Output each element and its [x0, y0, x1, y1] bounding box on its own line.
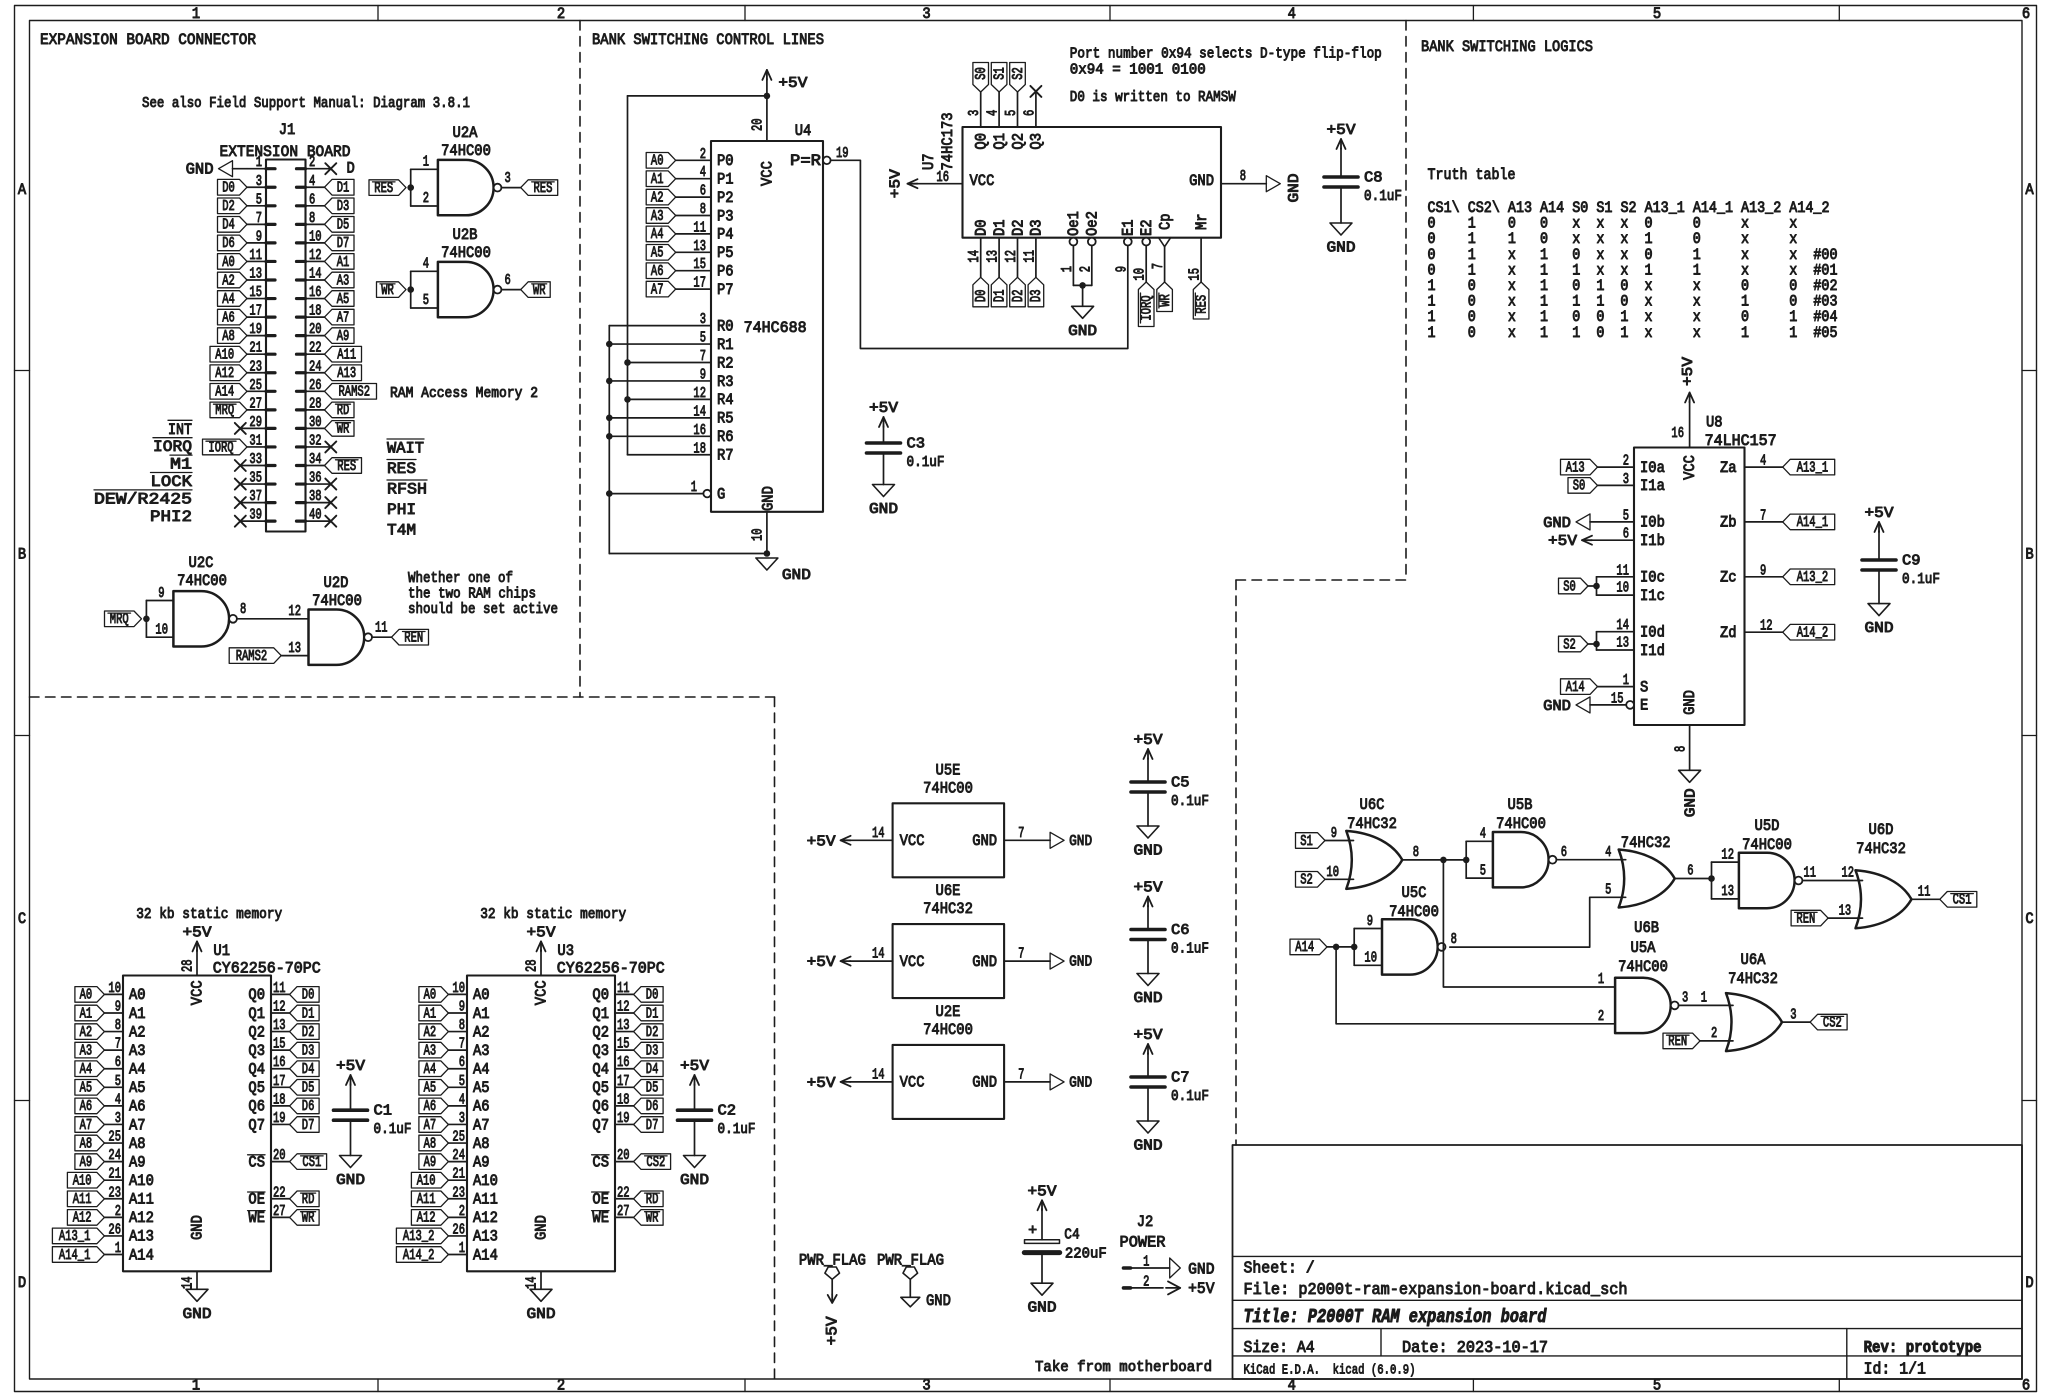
svg-text:1: 1	[1701, 990, 1707, 1007]
power +5V at C8	[1340, 148, 1342, 149]
svg-text:A13: A13	[337, 365, 356, 382]
svg-text:A1: A1	[337, 254, 350, 271]
wire	[1598, 466, 1635, 468]
svg-text:U3: U3	[557, 942, 574, 960]
svg-text:9: 9	[115, 998, 121, 1015]
wire U6B output	[1675, 878, 1712, 880]
svg-text:A11: A11	[337, 347, 356, 364]
section divider dashed horizontal right	[1236, 579, 1406, 581]
power +5V at U8 VCC	[1689, 402, 1691, 448]
svg-text:31: 31	[249, 432, 262, 449]
svg-text:A14: A14	[1566, 679, 1585, 696]
svg-text:2: 2	[423, 190, 429, 207]
wire	[104, 1012, 123, 1014]
svg-text:16: 16	[1671, 425, 1684, 442]
svg-text:GND: GND	[1681, 690, 1699, 715]
svg-text:0.1uF: 0.1uF	[907, 454, 945, 471]
net label D0 from U3	[634, 987, 664, 1003]
svg-text:Zd: Zd	[1720, 624, 1737, 642]
ground under Oe pins	[1072, 306, 1094, 318]
svg-text:A7: A7	[651, 281, 664, 298]
svg-text:Rev: prototype: Rev: prototype	[1864, 1339, 1982, 1357]
wire	[271, 993, 290, 995]
svg-text:S0: S0	[1573, 478, 1586, 495]
svg-text:U2B: U2B	[453, 226, 478, 244]
svg-text:A12: A12	[417, 1210, 436, 1227]
svg-text:Q6: Q6	[248, 1098, 265, 1116]
wire J2 pin 1	[1131, 1267, 1170, 1269]
svg-text:14: 14	[872, 825, 885, 842]
svg-text:BANK SWITCHING LOGICS: BANK SWITCHING LOGICS	[1421, 38, 1593, 56]
svg-text:5: 5	[115, 1073, 121, 1090]
wire S2 split I0d I1d	[1588, 643, 1597, 645]
net label A7 to U1	[75, 1117, 105, 1133]
junction U6B out	[1708, 875, 1715, 882]
svg-text:R7: R7	[717, 447, 734, 465]
net label D4 from U1	[290, 1061, 320, 1077]
svg-text:39: 39	[249, 507, 262, 524]
net label CS2	[634, 1154, 671, 1170]
svg-text:S2: S2	[1010, 67, 1027, 80]
wire	[104, 1142, 123, 1144]
svg-text:GND: GND	[1189, 172, 1214, 190]
svg-text:Mr: Mr	[1193, 213, 1211, 230]
svg-text:A11: A11	[473, 1191, 498, 1209]
svg-text:24: 24	[452, 1147, 465, 1164]
svg-text:9: 9	[459, 998, 465, 1015]
wire +5V bus vertical	[627, 96, 629, 455]
svg-text:A4: A4	[424, 1061, 437, 1078]
net label D7 from U3	[634, 1117, 664, 1133]
wire	[271, 1012, 290, 1014]
svg-text:R5: R5	[717, 410, 734, 428]
section divider dashed vertical right upper	[1405, 21, 1407, 581]
net label A14_1	[1783, 514, 1835, 530]
net label A6	[218, 309, 248, 325]
svg-text:10: 10	[1616, 580, 1629, 597]
junction U6C out 2	[1463, 857, 1470, 864]
wire	[615, 1123, 634, 1125]
svg-text:A4: A4	[80, 1061, 93, 1078]
wire	[615, 1012, 634, 1014]
net label A11 to U1	[67, 1191, 104, 1207]
net label A4 to U1	[75, 1061, 105, 1077]
svg-text:3: 3	[922, 1377, 930, 1395]
wire	[1828, 917, 1862, 919]
svg-text:I1b: I1b	[1640, 532, 1665, 550]
power +5V at C6	[1147, 906, 1149, 907]
svg-text:VCC: VCC	[970, 172, 995, 190]
svg-text:15: 15	[617, 1036, 630, 1053]
svg-text:6: 6	[700, 183, 706, 200]
net label A2 to U1	[75, 1024, 105, 1040]
junction U5C input	[1351, 944, 1358, 951]
wire	[1035, 91, 1037, 127]
wire	[615, 1031, 634, 1033]
svg-text:0.1uF: 0.1uF	[1171, 1088, 1209, 1105]
no-connect x J1 pins	[235, 423, 246, 434]
svg-text:CS: CS	[248, 1153, 265, 1171]
svg-text:11: 11	[693, 219, 706, 236]
svg-text:A8: A8	[424, 1135, 437, 1152]
svg-text:1: 1	[691, 479, 697, 496]
svg-text:A14_1: A14_1	[1797, 514, 1829, 531]
net label D0	[218, 179, 248, 195]
wire	[104, 1235, 123, 1237]
svg-text:A6: A6	[80, 1098, 93, 1115]
svg-text:A4: A4	[473, 1061, 490, 1079]
svg-text:A11: A11	[417, 1191, 436, 1208]
svg-text:7: 7	[1018, 1066, 1024, 1083]
svg-text:A13: A13	[129, 1228, 154, 1246]
svg-text:0.1uF: 0.1uF	[718, 1121, 756, 1138]
svg-text:13: 13	[249, 266, 262, 283]
svg-text:Q3: Q3	[248, 1042, 265, 1060]
svg-text:20: 20	[273, 1147, 286, 1164]
wire	[271, 1031, 290, 1033]
svg-text:VCC: VCC	[1681, 455, 1699, 480]
svg-text:3: 3	[505, 170, 511, 187]
svg-text:13: 13	[1616, 635, 1629, 652]
junction R3	[606, 378, 613, 385]
capacitor C3	[867, 441, 901, 445]
svg-text:38: 38	[309, 488, 322, 505]
svg-text:GND: GND	[1134, 990, 1163, 1007]
svg-text:C1: C1	[374, 1103, 393, 1120]
net label D6 from U3	[634, 1098, 664, 1114]
svg-text:1: 1	[1143, 1254, 1149, 1271]
svg-text:11: 11	[1021, 250, 1038, 263]
wire	[1598, 484, 1635, 486]
svg-text:Za: Za	[1720, 459, 1737, 477]
svg-text:15: 15	[249, 284, 262, 301]
svg-text:+5V: +5V	[1327, 122, 1356, 139]
svg-text:8: 8	[240, 601, 246, 618]
title block column lines	[1380, 1329, 1382, 1356]
net label CS1	[290, 1154, 327, 1170]
ground under U1	[186, 1289, 208, 1301]
svg-text:1: 1	[115, 1240, 121, 1257]
svg-text:D2: D2	[1009, 219, 1027, 236]
svg-text:P0: P0	[717, 152, 734, 170]
svg-text:PHI2: PHI2	[150, 508, 192, 526]
svg-text:A4: A4	[129, 1061, 146, 1079]
net label A10	[210, 346, 247, 362]
svg-text:GND: GND	[760, 486, 778, 511]
svg-text:E: E	[1640, 697, 1648, 715]
svg-text:Q1: Q1	[991, 133, 1009, 150]
svg-text:A13_2: A13_2	[403, 1228, 435, 1245]
svg-text:A0: A0	[424, 987, 437, 1004]
svg-text:Title: P2000T RAM expansion bo: Title: P2000T RAM expansion board	[1244, 1306, 1548, 1328]
junction U2C input	[143, 616, 150, 623]
svg-text:1: 1	[423, 154, 429, 171]
net label A11 to U3	[411, 1191, 448, 1207]
svg-text:8: 8	[309, 210, 315, 227]
svg-text:D7: D7	[302, 1117, 315, 1134]
net label REN output U2D	[392, 629, 429, 645]
svg-text:D1: D1	[302, 1005, 315, 1022]
svg-text:Q2: Q2	[1009, 133, 1027, 150]
svg-text:5: 5	[1480, 862, 1486, 879]
svg-text:C5: C5	[1171, 775, 1190, 792]
wire	[271, 1049, 290, 1051]
svg-text:J2: J2	[1137, 1213, 1154, 1231]
net label WR input U2B	[377, 282, 407, 298]
svg-text:U6B: U6B	[1634, 919, 1659, 937]
frame row ticks	[15, 370, 30, 372]
wire U6A output	[1782, 1021, 1810, 1023]
svg-text:D5: D5	[646, 1080, 659, 1097]
svg-text:25: 25	[452, 1129, 465, 1146]
wire U4 G pin	[609, 493, 704, 495]
junction U6C out 1	[1440, 857, 1447, 864]
svg-text:Q1: Q1	[248, 1005, 265, 1023]
svg-text:Size: A4: Size: A4	[1244, 1339, 1315, 1357]
svg-text:13: 13	[273, 1017, 286, 1034]
svg-text:2: 2	[557, 1377, 565, 1395]
net label A14_2 to U3	[396, 1247, 448, 1263]
ground GND under U4	[756, 558, 778, 570]
net label A0 to U1	[75, 987, 105, 1003]
capacitor C7	[1147, 1054, 1149, 1077]
svg-text:2: 2	[1598, 1008, 1604, 1025]
svg-text:12: 12	[273, 998, 286, 1015]
wire	[104, 1254, 123, 1256]
svg-text:Q4: Q4	[592, 1061, 609, 1079]
net label A2 to U4	[646, 189, 676, 205]
wire	[104, 1216, 123, 1218]
svg-text:KiCad E.D.A. kicad (6.0.9): KiCad E.D.A. kicad (6.0.9)	[1244, 1363, 1416, 1379]
svg-text:A12: A12	[215, 365, 234, 382]
svg-text:G: G	[717, 485, 725, 503]
svg-text:6: 6	[1021, 110, 1038, 116]
svg-text:4: 4	[1760, 453, 1766, 470]
svg-text:Id: 1/1: Id: 1/1	[1864, 1361, 1926, 1379]
svg-text:D3: D3	[646, 1042, 659, 1059]
svg-text:Zb: Zb	[1720, 514, 1737, 532]
svg-text:A14: A14	[473, 1246, 498, 1264]
wire	[448, 1216, 467, 1218]
svg-text:File: p2000t-ram-expansion-boa: File: p2000t-ram-expansion-board.kicad_s…	[1244, 1281, 1628, 1299]
svg-text:GND: GND	[186, 161, 214, 179]
svg-text:26: 26	[108, 1221, 121, 1238]
wire U6E GND pin 7	[1004, 960, 1050, 962]
svg-text:GND: GND	[1865, 620, 1894, 637]
svg-text:9: 9	[1331, 825, 1337, 842]
svg-text:GND: GND	[1188, 1261, 1214, 1279]
svg-text:A6: A6	[424, 1098, 437, 1115]
svg-text:Q7: Q7	[592, 1116, 609, 1134]
ground under C1	[340, 1156, 362, 1168]
svg-text:A10: A10	[417, 1173, 436, 1190]
net label RES	[325, 458, 362, 474]
svg-text:2: 2	[1143, 1273, 1149, 1290]
wire	[104, 1086, 123, 1088]
capacitor C5	[1147, 759, 1149, 782]
svg-text:A12: A12	[73, 1210, 92, 1227]
svg-text:2: 2	[459, 1203, 465, 1220]
svg-text:A8: A8	[473, 1135, 490, 1153]
svg-text:26: 26	[452, 1221, 465, 1238]
svg-text:9: 9	[1367, 913, 1373, 930]
svg-text:2: 2	[700, 146, 706, 163]
svg-text:C3: C3	[907, 436, 926, 453]
svg-text:7: 7	[1150, 263, 1167, 269]
svg-text:U5B: U5B	[1508, 796, 1533, 814]
svg-text:U2E: U2E	[936, 1003, 961, 1021]
wire	[609, 417, 711, 419]
net label S0 to U8 I1a	[1568, 478, 1598, 494]
svg-text:U1: U1	[213, 942, 230, 960]
net label D2 below U7	[1010, 277, 1026, 307]
wire U2A inputs	[411, 168, 438, 170]
svg-text:D3: D3	[302, 1042, 315, 1059]
svg-text:8: 8	[115, 1017, 121, 1034]
net label A1 to U3	[419, 1005, 449, 1021]
svg-text:+5V: +5V	[1188, 1280, 1215, 1298]
svg-text:A3: A3	[80, 1042, 93, 1059]
wire U5B input bracket	[1465, 841, 1467, 878]
net label D4	[218, 217, 248, 233]
svg-text:12: 12	[1760, 618, 1773, 635]
svg-text:6: 6	[309, 191, 315, 208]
junction U2B input	[407, 286, 414, 293]
svg-text:A10: A10	[473, 1172, 498, 1190]
svg-text:74HC00: 74HC00	[1618, 958, 1668, 976]
wire	[1017, 92, 1019, 127]
svg-text:U5D: U5D	[1755, 817, 1780, 835]
svg-text:34: 34	[309, 451, 322, 468]
svg-text:D: D	[347, 160, 355, 178]
wire	[448, 1161, 467, 1163]
svg-text:A1: A1	[651, 171, 664, 188]
wire	[609, 380, 711, 382]
wire	[1745, 466, 1783, 468]
wire U6C junction down to U5A pin1	[1443, 860, 1615, 987]
svg-text:D3: D3	[337, 198, 350, 215]
svg-text:GND: GND	[680, 1172, 709, 1189]
ground under C3	[873, 485, 895, 497]
svg-text:GND: GND	[1069, 833, 1092, 850]
section divider dashed vertical left	[579, 21, 581, 698]
svg-text:+5V: +5V	[1134, 1027, 1163, 1044]
svg-text:Truth table: Truth table	[1428, 166, 1516, 184]
svg-text:Whether one of: Whether one of	[408, 570, 513, 587]
net label A5	[325, 291, 355, 307]
svg-text:EXTENSION BOARD: EXTENSION BOARD	[220, 143, 351, 161]
svg-text:A9: A9	[473, 1153, 490, 1171]
svg-text:11: 11	[617, 980, 630, 997]
svg-text:Oe2: Oe2	[1084, 211, 1102, 236]
svg-text:+5V: +5V	[183, 924, 212, 941]
svg-text:P5: P5	[717, 244, 734, 262]
ground under C7	[1137, 1121, 1159, 1133]
svg-text:U6A: U6A	[1741, 951, 1766, 969]
net label D3 below U7	[1028, 277, 1044, 307]
svg-text:A0: A0	[80, 987, 93, 1004]
wire	[609, 435, 711, 437]
svg-text:1: 1	[1623, 672, 1629, 689]
svg-text:A6: A6	[473, 1098, 490, 1116]
net label A13_2 to U3	[396, 1228, 448, 1244]
wire	[1147, 792, 1149, 826]
svg-text:+5V: +5V	[869, 400, 898, 417]
svg-text:+5V: +5V	[1134, 880, 1163, 897]
ic U4 74HC688	[711, 141, 823, 512]
svg-text:D2: D2	[646, 1024, 659, 1041]
wire	[104, 1049, 123, 1051]
ground under C2	[684, 1156, 706, 1168]
wire	[448, 1123, 467, 1125]
net label RD to U3	[634, 1191, 664, 1207]
svg-text:Q4: Q4	[248, 1061, 265, 1079]
wire	[676, 270, 711, 272]
net label D6	[218, 235, 248, 251]
svg-text:5: 5	[1623, 507, 1629, 524]
svg-text:11: 11	[1804, 865, 1817, 882]
svg-text:19: 19	[249, 321, 262, 338]
power +5V to U5E VCC pin 14	[850, 839, 893, 841]
net label MRQ input U2C	[105, 611, 142, 627]
net label A6 to U1	[75, 1098, 105, 1114]
svg-text:A12: A12	[473, 1209, 498, 1227]
svg-text:A2: A2	[129, 1023, 146, 1041]
svg-text:4: 4	[700, 164, 706, 181]
svg-text:I1a: I1a	[1640, 477, 1665, 495]
svg-text:3: 3	[1790, 1006, 1796, 1023]
svg-text:A: A	[2025, 181, 2034, 199]
net label A0	[218, 254, 248, 270]
svg-text:19: 19	[617, 1110, 630, 1127]
svg-text:P2: P2	[717, 189, 734, 207]
wire	[1700, 1040, 1733, 1042]
svg-text:D2: D2	[302, 1024, 315, 1041]
svg-text:C7: C7	[1171, 1070, 1190, 1087]
svg-text:1: 1	[192, 1377, 200, 1395]
wire	[615, 993, 634, 995]
svg-text:R6: R6	[717, 428, 734, 446]
svg-text:25: 25	[249, 377, 262, 394]
svg-text:A10: A10	[73, 1173, 92, 1190]
ic U8 74LHC157	[1634, 448, 1745, 726]
svg-text:A1: A1	[80, 1005, 93, 1022]
svg-text:6: 6	[115, 1054, 121, 1071]
wire	[615, 1049, 634, 1051]
wire	[628, 362, 712, 364]
svg-text:U6C: U6C	[1360, 796, 1385, 814]
wire C8 to GND	[1340, 187, 1342, 223]
net label A7 to U3	[419, 1117, 449, 1133]
svg-text:74HC00: 74HC00	[1742, 836, 1792, 854]
svg-text:29: 29	[249, 414, 262, 431]
svg-text:16: 16	[273, 1054, 286, 1071]
svg-text:A3: A3	[651, 208, 664, 225]
svg-text:11: 11	[249, 247, 262, 264]
svg-text:Zc: Zc	[1720, 569, 1737, 587]
wire	[1590, 521, 1634, 523]
wire	[104, 1198, 123, 1200]
svg-text:RAM Access Memory 2: RAM Access Memory 2	[390, 385, 538, 402]
svg-text:2: 2	[1623, 453, 1629, 470]
svg-text:U2A: U2A	[453, 124, 478, 142]
svg-text:A7: A7	[473, 1116, 490, 1134]
net label A14 to U5C	[1290, 939, 1327, 955]
net label A2 to U3	[419, 1024, 449, 1040]
svg-text:A: A	[18, 181, 27, 199]
wire	[676, 233, 711, 235]
svg-text:3: 3	[1682, 990, 1688, 1007]
